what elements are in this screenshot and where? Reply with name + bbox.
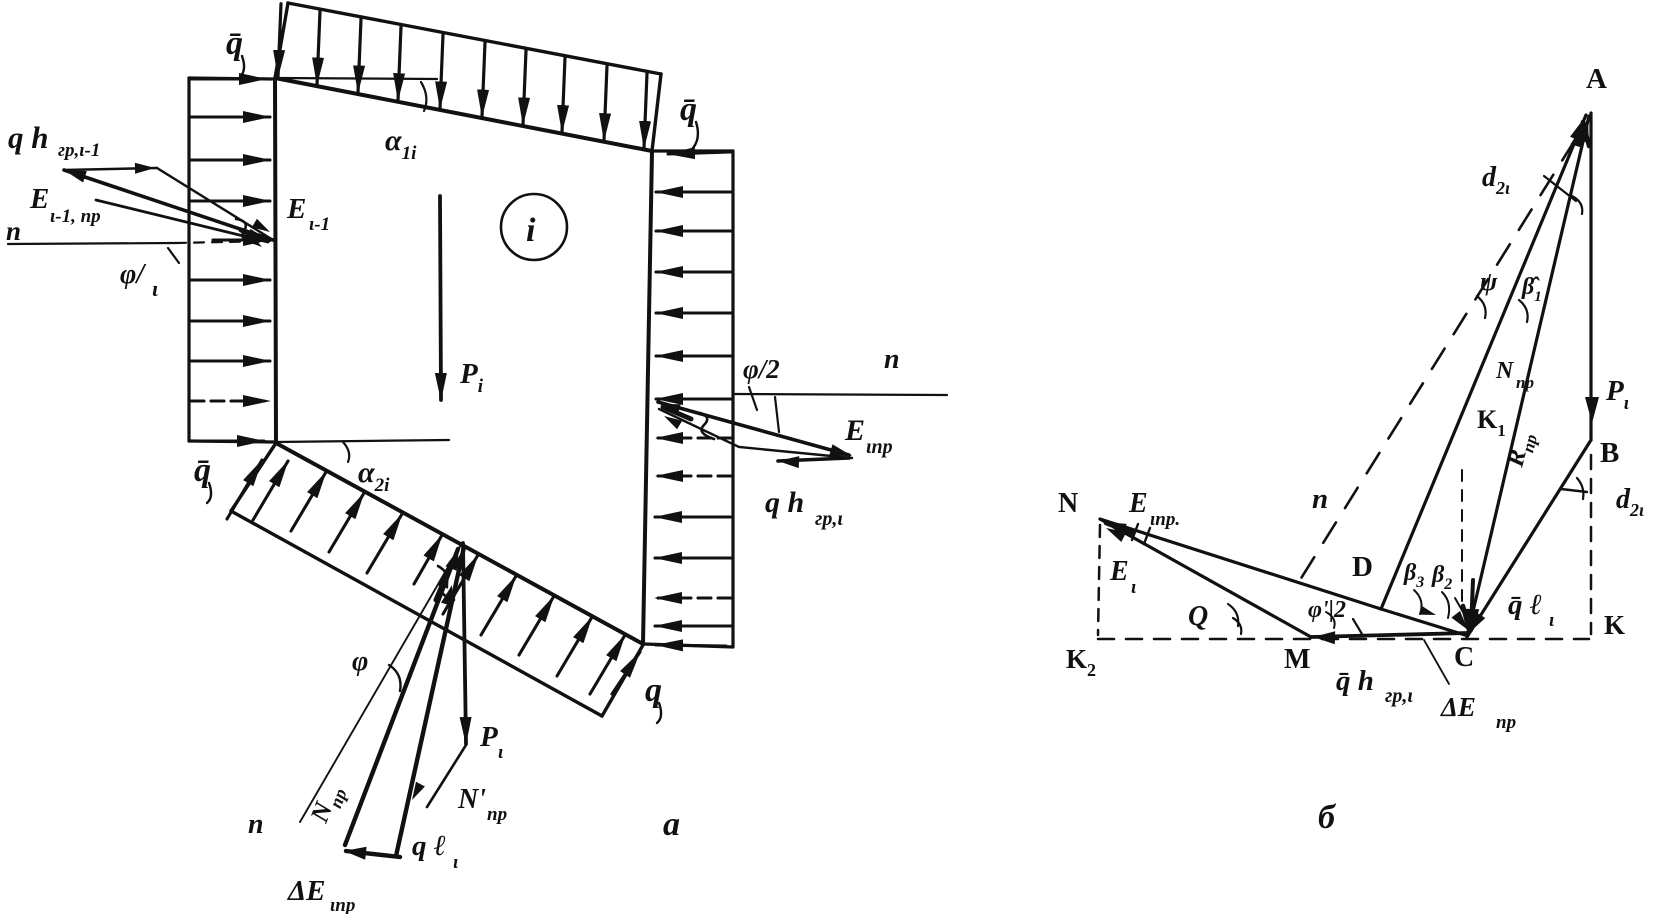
bottom band cap arrow [612, 652, 640, 694]
N_pr arrowhead [446, 548, 460, 571]
thick stroke at N blob [1106, 523, 1132, 533]
top band arrow 8 [562, 58, 565, 132]
q h_gr,i arrowhead [778, 456, 799, 468]
svg-text:гр,ι: гр,ι [815, 508, 843, 530]
E_{i-1,pr} arrowhead [64, 170, 87, 183]
right band arrow dashed 2 [656, 474, 731, 477]
right band arrow 5 [656, 354, 731, 357]
svg-text:ιпр.: ιпр. [1150, 509, 1180, 530]
svg-text:E: E [844, 414, 865, 447]
svg-text:n: n [1312, 483, 1328, 515]
right band outer line [731, 151, 734, 647]
axis n right [733, 394, 947, 395]
left band arrow 2 [191, 158, 270, 161]
extra arrowhead at T [438, 568, 449, 589]
extra arrowhead into C [1451, 611, 1468, 630]
bottom band arrow 3 [291, 472, 326, 531]
squiggle at right edge point [700, 413, 714, 439]
vector N&#39;_pr shaft [396, 547, 464, 856]
thick stroke at right E blob [663, 407, 691, 419]
beta_3 arc [1414, 590, 1422, 614]
axis n bottom [300, 543, 462, 822]
d_2i arc at B [1577, 478, 1583, 499]
right band top cap arrow [668, 152, 731, 154]
phi/2 small arc at D [1326, 612, 1335, 628]
svg-text:N: N [1058, 488, 1078, 519]
top band arrow 4 [398, 27, 401, 101]
svg-text:б: б [1318, 799, 1337, 836]
top band outer line [288, 3, 661, 74]
right band arrow 10 [655, 624, 731, 627]
P_i arrowhead at B [1585, 397, 1599, 423]
bottom band arrow under fan [414, 535, 442, 584]
svg-text:P: P [479, 721, 498, 753]
E_i,pr arrowhead at N [1104, 522, 1127, 535]
small arrowhead on q l_i [412, 782, 425, 800]
left band top cap arrow [191, 77, 266, 80]
svg-text:ι-1, пр: ι-1, пр [50, 206, 101, 227]
thick stroke at T blob [436, 562, 452, 600]
svg-text:φ: φ [352, 646, 368, 677]
svg-text:гр,ι-1: гр,ι-1 [58, 140, 100, 161]
alpha_2i horizontal reference line [276, 440, 449, 442]
left band bottom cap arrow [191, 439, 264, 442]
vector E_i,pr shaft [658, 402, 849, 455]
tick marks on E_i,pr near N [1132, 524, 1150, 544]
svg-text:N: N [1495, 358, 1515, 384]
N_pr arrowhead at A [1570, 117, 1585, 142]
phi/2 vertical tick [775, 397, 779, 432]
left band arrow 6 [191, 359, 270, 362]
circle marker i [501, 194, 567, 260]
svg-text:M: M [1284, 644, 1310, 675]
svg-text:ι: ι [152, 276, 158, 301]
Delta E_i,pr arrowhead [344, 847, 367, 860]
segment D-C of E_i,pr [1381, 609, 1465, 635]
dashed vertical above C [1461, 470, 1463, 608]
left band arrow dashed [191, 399, 270, 402]
Q angle arc 2 [1233, 618, 1241, 634]
svg-text:q̄: q̄ [680, 91, 697, 128]
convergence arrowhead 1 at E_{i-1} point [247, 229, 268, 240]
vector E_{i-1,pr} shaft [64, 170, 273, 240]
svg-text:n: n [6, 216, 21, 246]
d_2i top arc [1572, 196, 1582, 214]
dashed axis n polygon [1300, 140, 1575, 580]
svg-text:ιпр: ιпр [866, 436, 893, 458]
vector Delta E_i,pr shaft [346, 851, 400, 857]
axis n left solid part [8, 243, 176, 244]
svg-text:E: E [1128, 488, 1148, 519]
squiggle at E_{i-1} point [236, 219, 256, 243]
beta_1 arc [1519, 300, 1528, 322]
right band arrow 4 [656, 311, 731, 314]
vector N_pr shaft [345, 549, 458, 845]
bottom band arrow 9 [557, 617, 592, 676]
svg-text:n: n [248, 809, 264, 840]
bottom band arrow 7 [481, 576, 516, 635]
axis n left dashed part [176, 241, 270, 243]
left band bottom cap [189, 441, 274, 442]
svg-text:A: A [1586, 63, 1607, 95]
svg-text:q̄: q̄ [226, 25, 243, 62]
right band arrow dashed 3 [655, 596, 731, 599]
bottom band outer line [231, 511, 602, 716]
svg-text:ΔE: ΔE [1440, 692, 1476, 722]
convergence arrowhead 2 at edge right [664, 416, 682, 429]
left band outer line [187, 78, 190, 441]
segment N-M vector E_i [1100, 519, 1311, 637]
extra arrowhead at C along R_pr [1466, 610, 1478, 633]
left band top cap [189, 78, 272, 79]
left band arrow 4 [191, 278, 270, 281]
bottom band arrow 1 [227, 460, 262, 519]
svg-text:E: E [29, 183, 49, 215]
svg-text:B: B [1600, 437, 1619, 469]
q-bar bottom-left tail [207, 483, 211, 503]
top band right cap [652, 74, 661, 151]
dashed base K2-K [1098, 638, 1589, 641]
q h_gr,i arrowhead at M [1313, 631, 1335, 644]
top band arrow 9 [604, 66, 607, 141]
segment C-A vector R_pr [1467, 116, 1589, 637]
svg-text:ψ: ψ [1480, 267, 1498, 296]
svg-text:ι: ι [498, 742, 504, 763]
beta_2 arc [1442, 592, 1449, 618]
bottom band arrow 8 [519, 596, 554, 655]
right band arrow 6 [656, 397, 731, 400]
bottom band arrow 6 [443, 555, 478, 614]
alpha_2i angle arc [343, 442, 349, 462]
q-bar top-right tail [693, 122, 698, 148]
svg-text:D: D [1352, 551, 1373, 583]
segment B-C [1467, 440, 1591, 637]
beta tick [1455, 598, 1463, 612]
top band arrow 7 [523, 50, 526, 124]
svg-text:q ℓ: q ℓ [412, 830, 446, 862]
parallelogram top side q h_gr,i-1 [64, 168, 157, 170]
svg-text:ι: ι [1131, 577, 1137, 598]
top band arrow 3 [358, 19, 361, 93]
svg-text:пр: пр [487, 804, 507, 825]
segment N-D of E_i,pr [1100, 519, 1381, 609]
top band left cap [275, 3, 288, 78]
svg-text:q̄ h: q̄ h [1336, 665, 1374, 697]
left band arrow 3 [191, 199, 270, 202]
bottom band arrow 10 [590, 635, 625, 694]
leader line Delta E_pr [1424, 640, 1449, 684]
svg-text:i: i [526, 212, 536, 249]
thick stroke at A blob [1583, 122, 1589, 146]
right band arrow 2 [656, 229, 731, 232]
d_2i tick at B [1561, 489, 1587, 492]
alpha_1i angle arc [421, 82, 426, 111]
bottom band arrow 5 [367, 514, 402, 573]
svg-text:C: C [1454, 642, 1474, 673]
left band arrow 5 [191, 319, 270, 322]
right band arrow dashed 1 [656, 436, 731, 439]
svg-text:φ/2: φ/2 [743, 354, 780, 384]
parallelogram lower side right [659, 409, 852, 458]
top band arrow 10 [644, 73, 647, 148]
E_i arrowhead at N [1106, 528, 1126, 542]
convergence arrowhead 1 at edge right [660, 404, 681, 415]
phi/2 tick on n axis right [749, 387, 757, 410]
alpha_1i horizontal reference line [276, 78, 437, 79]
psi arc [1477, 296, 1486, 318]
svg-text:N': N' [457, 784, 486, 815]
segment M-C vector q h_gr,i [1311, 633, 1467, 637]
thick stroke at C blob [1463, 606, 1469, 630]
phi/2 tick at D [1353, 619, 1362, 634]
q-bar l_i arrowhead [1464, 609, 1479, 633]
second stroke of E_{i-1,pr} [96, 200, 268, 242]
vector q h_gr,i shaft [778, 458, 849, 461]
convergence arrowhead 3 at E_{i-1} point [244, 233, 262, 247]
vector q-bar l_i [1471, 580, 1473, 630]
left band arrow 1 [191, 115, 270, 118]
right band arrow 3 [656, 270, 731, 273]
phi/i tick on n axis [168, 248, 179, 263]
svg-text:φ/: φ/ [120, 259, 146, 290]
svg-text:K: K [1604, 610, 1625, 640]
small arrowhead on D-C [1419, 606, 1436, 615]
top band arrow 1 [278, 4, 281, 77]
segment D-A vector N_pr [1381, 115, 1586, 609]
E_i,pr arrowhead right [829, 444, 852, 456]
q h_gr,i-1 arrowhead [135, 163, 155, 174]
q bottom-right tail [657, 703, 661, 723]
squiggle at slip point T [438, 566, 454, 600]
svg-text:q̄ ℓ: q̄ ℓ [1508, 589, 1542, 621]
svg-text:а: а [663, 806, 680, 843]
top band arrow 6 [482, 42, 485, 116]
svg-text:ιпр: ιпр [330, 895, 355, 914]
bottom band right cap [602, 645, 643, 716]
R_pr arrowhead at A [1576, 118, 1589, 143]
svg-text:n: n [884, 344, 900, 375]
svg-text:φ'|2: φ'|2 [1308, 597, 1346, 623]
right band bottom cap arrow [656, 645, 726, 646]
svg-text:ΔE: ΔE [287, 875, 326, 907]
convergence arrowhead 2 at E_{i-1} point [252, 219, 270, 232]
vector P_i at slip surface [463, 543, 466, 744]
right band bottom cap [644, 644, 733, 647]
link line P_i tip to q l_i [427, 745, 466, 807]
dashed N-K2 [1098, 525, 1100, 635]
top band arrow 2 [317, 11, 320, 84]
svg-text:ι: ι [1549, 610, 1555, 631]
d_2i top tick [1544, 176, 1576, 201]
svg-text:ι: ι [453, 852, 459, 873]
right band arrow 1 [656, 190, 731, 193]
extra arrowhead 2 at T [441, 585, 453, 606]
svg-text:пр: пр [1496, 712, 1516, 733]
svg-text:q h: q h [8, 120, 49, 155]
left band arrow at E point [213, 238, 270, 241]
svg-text:пр: пр [1516, 373, 1534, 392]
dashed B-K [1590, 455, 1593, 634]
svg-text:E: E [1109, 556, 1129, 587]
second arrowhead at A [1571, 125, 1584, 148]
bottom band left cap [231, 443, 276, 511]
right band arrow 7 [655, 515, 731, 518]
right band top cap [652, 149, 733, 152]
arrowhead at C from B [1470, 612, 1485, 632]
top band arrow 5 [440, 35, 443, 109]
vector P_i (weight of slice) [440, 196, 441, 400]
svg-text:Q: Q [1188, 601, 1208, 632]
N&#39;_pr arrowhead [453, 547, 465, 570]
q-bar top-left tail [240, 56, 244, 77]
Q angle arc 1 [1228, 604, 1238, 626]
svg-text:гр,ι: гр,ι [1385, 685, 1413, 707]
parallelogram side to edge point [157, 168, 273, 240]
bottom band arrow 2 [253, 461, 288, 520]
bottom band arrow 4 [329, 493, 364, 552]
svg-text:q h: q h [765, 486, 804, 519]
thick stroke at E_{i-1} blob [241, 230, 266, 240]
svg-text:ι-1: ι-1 [309, 214, 330, 235]
phi angle arc [389, 665, 401, 691]
right band arrow 8 [655, 556, 731, 559]
slice i outline [275, 78, 652, 644]
segment A-B vector P_i [1589, 113, 1592, 440]
svg-text:E: E [286, 193, 306, 225]
